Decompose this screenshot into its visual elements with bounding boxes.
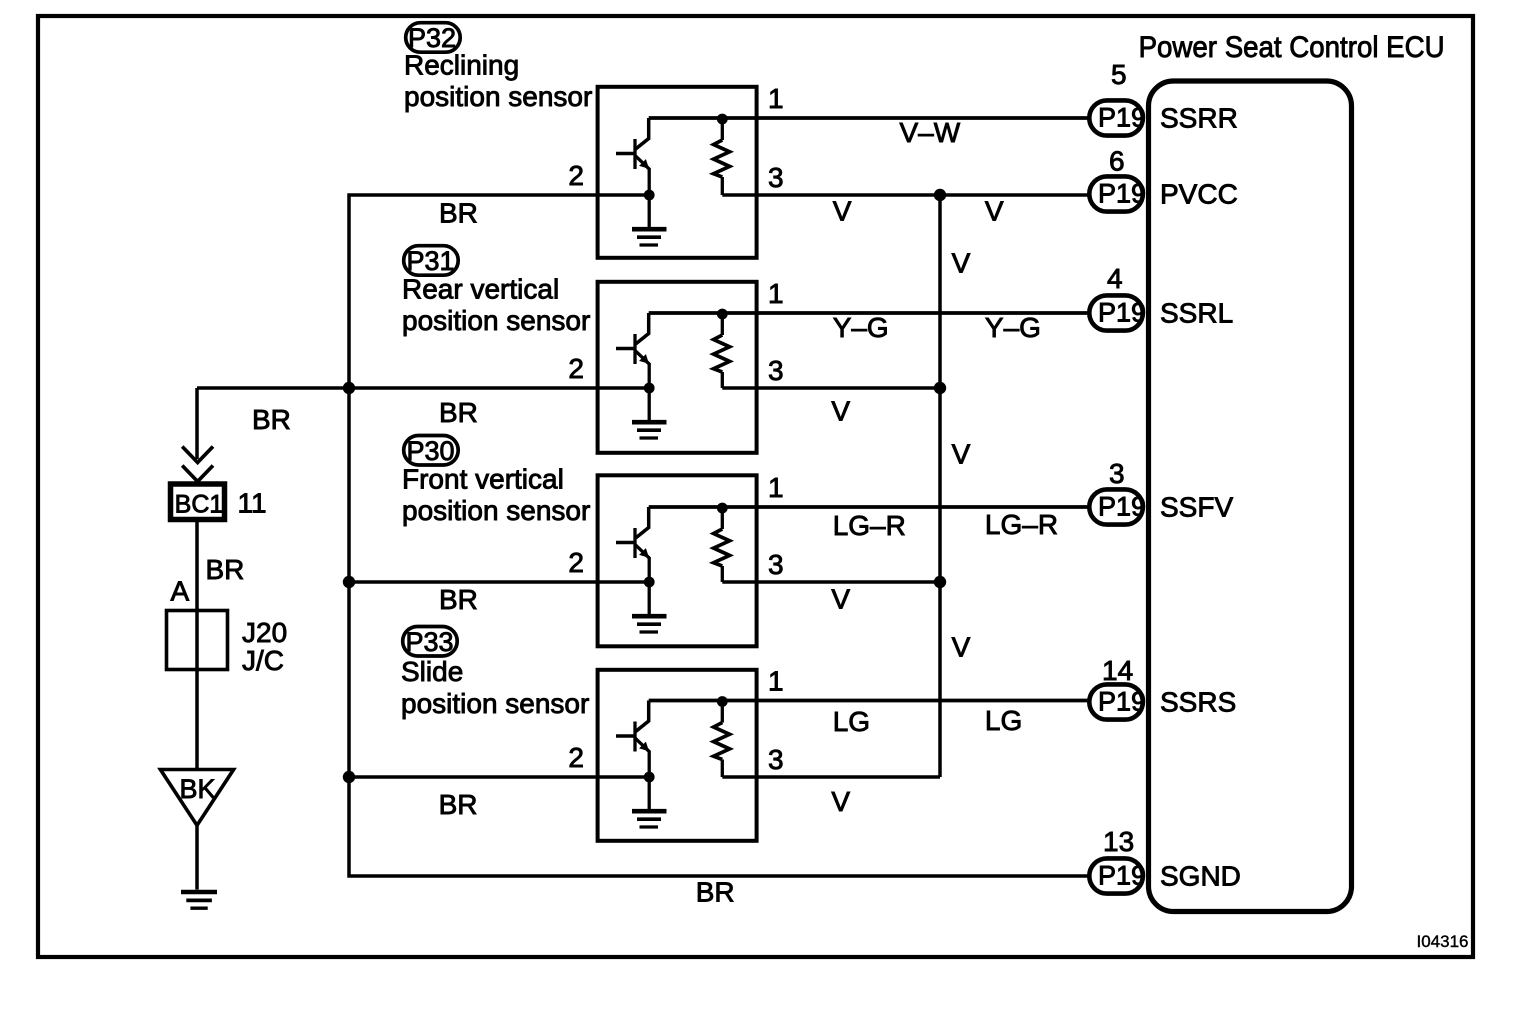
svg-text:11: 11 — [238, 488, 267, 519]
svg-text:V: V — [833, 196, 852, 227]
svg-text:Reclining: Reclining — [404, 50, 519, 81]
svg-text:LG–R: LG–R — [833, 510, 906, 541]
svg-text:V: V — [831, 396, 850, 427]
svg-text:BR: BR — [206, 554, 245, 585]
svg-text:3: 3 — [768, 549, 784, 580]
svg-text:LG–R: LG–R — [985, 509, 1058, 540]
svg-text:Slide: Slide — [401, 656, 463, 687]
svg-text:P19: P19 — [1098, 492, 1146, 522]
svg-text:I04316: I04316 — [1417, 932, 1469, 951]
svg-text:3: 3 — [768, 744, 784, 775]
svg-text:BR: BR — [439, 397, 478, 428]
svg-text:LG: LG — [833, 706, 870, 737]
svg-text:6: 6 — [1109, 145, 1125, 176]
svg-text:PVCC: PVCC — [1160, 179, 1238, 210]
svg-text:P19: P19 — [1098, 861, 1146, 891]
svg-text:V: V — [985, 196, 1004, 227]
svg-text:P19: P19 — [1098, 298, 1146, 328]
svg-text:SSRS: SSRS — [1160, 687, 1236, 718]
svg-text:position sensor: position sensor — [401, 688, 589, 719]
svg-text:BK: BK — [179, 774, 215, 804]
svg-text:V: V — [952, 632, 971, 663]
svg-text:2: 2 — [568, 547, 584, 578]
svg-text:P32: P32 — [408, 23, 456, 53]
svg-text:5: 5 — [1111, 59, 1127, 90]
svg-text:2: 2 — [568, 353, 584, 384]
svg-text:P30: P30 — [406, 436, 454, 466]
svg-text:BR: BR — [439, 198, 478, 229]
svg-text:V: V — [952, 248, 971, 279]
svg-text:position sensor: position sensor — [402, 495, 590, 526]
svg-text:4: 4 — [1107, 263, 1123, 294]
svg-text:position sensor: position sensor — [402, 305, 590, 336]
svg-text:2: 2 — [568, 742, 584, 773]
svg-text:BR: BR — [252, 404, 291, 435]
svg-text:P19: P19 — [1098, 103, 1146, 133]
svg-text:P19: P19 — [1098, 179, 1146, 209]
svg-text:J20: J20 — [242, 617, 287, 648]
svg-text:Front vertical: Front vertical — [402, 463, 564, 494]
svg-text:SSFV: SSFV — [1160, 492, 1233, 523]
svg-text:P19: P19 — [1098, 687, 1146, 717]
svg-text:3: 3 — [1109, 458, 1125, 489]
svg-text:A: A — [171, 576, 190, 607]
svg-text:P31: P31 — [406, 246, 454, 276]
svg-text:BC1: BC1 — [175, 491, 224, 519]
svg-text:Rear vertical: Rear vertical — [402, 274, 559, 305]
svg-text:J/C: J/C — [242, 645, 284, 676]
svg-text:14: 14 — [1102, 655, 1133, 686]
svg-text:3: 3 — [768, 162, 784, 193]
svg-text:Power Seat Control ECU: Power Seat Control ECU — [1139, 31, 1445, 64]
svg-text:V: V — [952, 439, 971, 470]
svg-text:LG: LG — [985, 705, 1022, 736]
svg-text:V: V — [831, 786, 850, 817]
svg-text:1: 1 — [768, 472, 784, 503]
svg-text:BR: BR — [696, 877, 735, 908]
svg-text:1: 1 — [768, 83, 784, 114]
svg-text:BR: BR — [439, 789, 478, 820]
svg-text:Y–G: Y–G — [833, 312, 889, 343]
svg-text:3: 3 — [768, 355, 784, 386]
svg-text:V: V — [831, 584, 850, 615]
svg-text:SSRL: SSRL — [1160, 298, 1233, 329]
svg-text:SSRR: SSRR — [1160, 103, 1238, 134]
svg-text:P33: P33 — [405, 627, 453, 657]
svg-text:1: 1 — [768, 278, 784, 309]
svg-text:13: 13 — [1103, 826, 1134, 857]
svg-text:SGND: SGND — [1160, 861, 1241, 892]
svg-text:BR: BR — [439, 584, 478, 615]
svg-text:position sensor: position sensor — [404, 81, 592, 112]
svg-text:1: 1 — [768, 666, 784, 697]
svg-text:Y–G: Y–G — [985, 312, 1041, 343]
svg-text:V–W: V–W — [900, 117, 961, 148]
svg-text:2: 2 — [568, 160, 584, 191]
